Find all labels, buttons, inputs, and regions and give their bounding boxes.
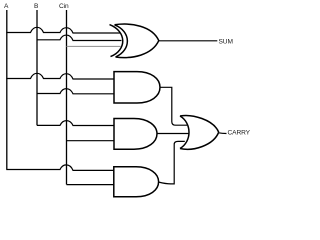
svg-text:Cin: Cin	[59, 3, 69, 10]
wire: OR output to CARRY	[219, 132, 227, 135]
svg-text:CARRY: CARRY	[228, 130, 251, 137]
and-gate U2 (A·B)	[114, 72, 160, 103]
wire: AND1 output to OR input 1	[160, 87, 187, 125]
or-gate U5 (CARRY)	[180, 116, 219, 150]
wire: Cin to AND2 input 2	[67, 140, 114, 142]
wire: B to AND2 input 1 (corner, hops over Cin)	[37, 121, 114, 126]
and-gate U4 (A·Cin)	[114, 167, 159, 197]
wire: AND2 output to OR input 2	[157, 133, 190, 135]
wire: A to AND1 input 1 (hops over B and Cin)	[6, 73, 114, 79]
wire: Cin to AND3 input 2 (corner at Cin)	[67, 184, 114, 186]
wire: XOR output to SUM	[159, 40, 218, 42]
xor-gate U1 (SUM) extra input arc	[110, 25, 123, 57]
wire: B to AND1 input 2 (hops over Cin)	[37, 89, 114, 94]
wire: input Cin vertical bus	[66, 10, 68, 185]
wire: A to XOR input 1 (hops over B and Cin)	[6, 27, 120, 33]
wire: AND3 output to OR input 3	[158, 141, 184, 184]
wire: input A vertical bus	[6, 10, 8, 170]
svg-text:B: B	[34, 3, 39, 10]
wire: B to XOR input 2 (hops over Cin)	[37, 35, 122, 40]
svg-text:SUM: SUM	[219, 39, 233, 46]
svg-text:A: A	[4, 3, 9, 10]
wire: A to AND3 input 1 (corner at A, hops over Cin)	[6, 165, 113, 171]
wire: input B vertical bus	[36, 10, 38, 125]
xor-gate U1 body	[115, 24, 159, 57]
and-gate U3 (B·Cin)	[114, 119, 157, 150]
wire: Cin to XOR input 3	[67, 45, 121, 47]
